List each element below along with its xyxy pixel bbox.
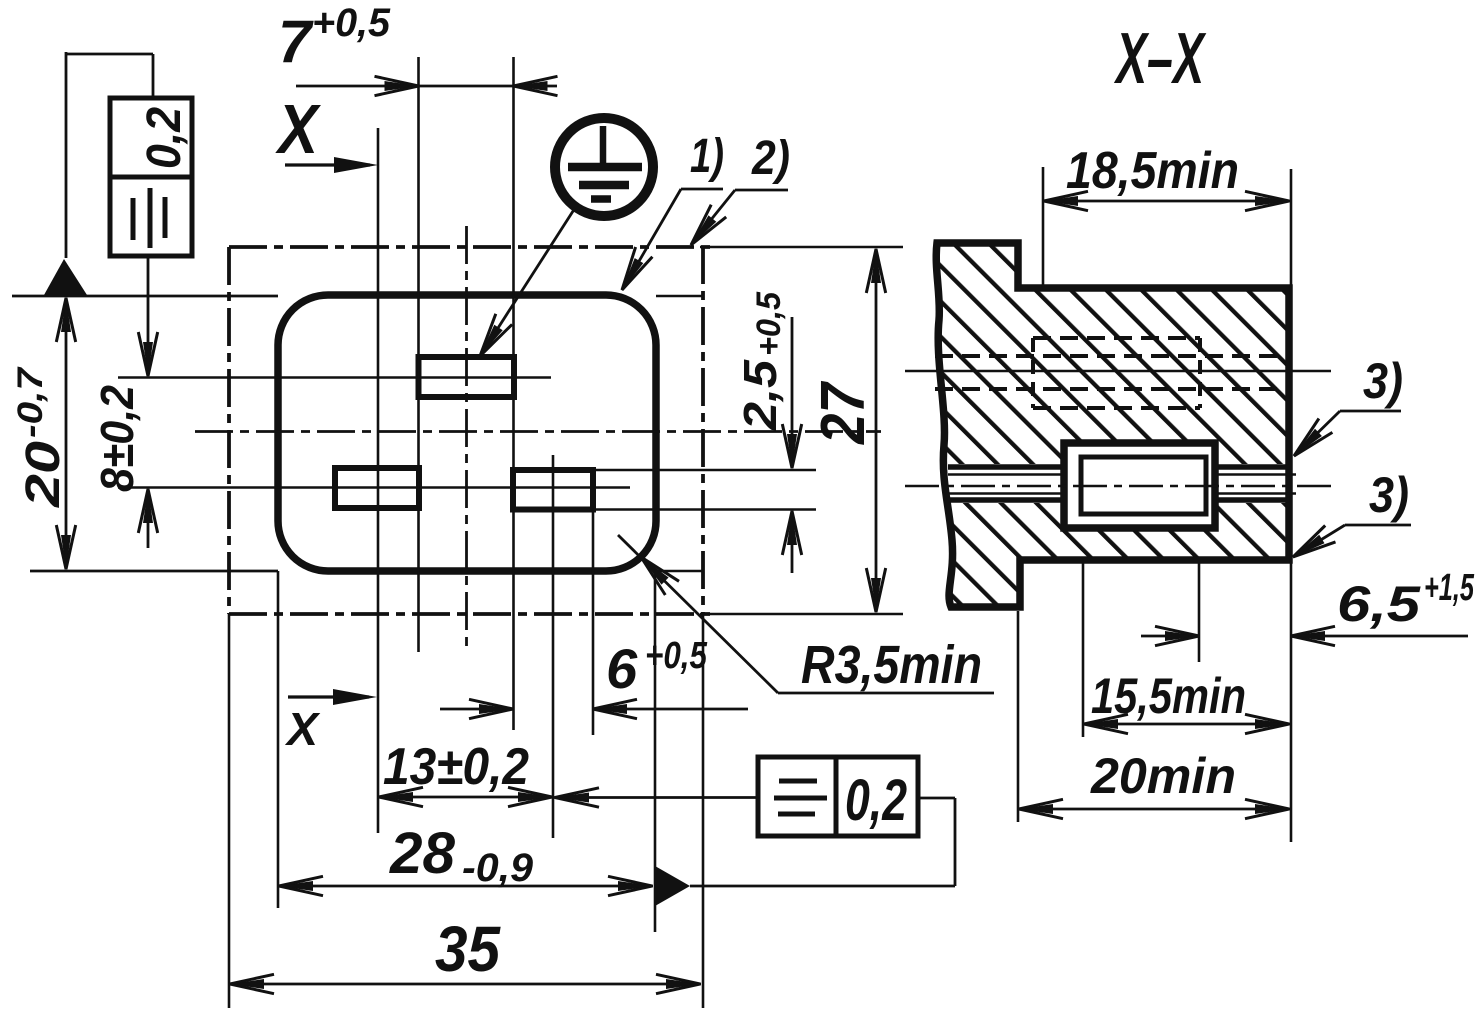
svg-text:X: X — [275, 90, 322, 168]
dimension 7 +0,5 — [296, 85, 557, 88]
earth pin channel (hidden, dashed) — [1033, 336, 1200, 340]
flatness symbol (rotated) — [131, 198, 136, 240]
connector face rounded rectangle — [278, 295, 656, 571]
svg-text:X–X: X–X — [1113, 19, 1206, 99]
leader to lower tolerance frame — [553, 796, 758, 799]
svg-text:2): 2) — [751, 132, 790, 185]
lower tolerance frame (flatness 0,2) — [758, 757, 918, 836]
dimension 35 — [229, 983, 701, 986]
svg-text:2,5: 2,5 — [734, 358, 786, 431]
svg-text:3): 3) — [1369, 467, 1409, 523]
leader loop from lower frame to datum — [690, 885, 955, 888]
panel cutout outline (phantom dash-dot rectangle) — [229, 245, 712, 249]
svg-text:3): 3) — [1363, 353, 1403, 409]
svg-text:6,5: 6,5 — [1337, 576, 1421, 632]
leader R3,5min to corner radius — [778, 692, 994, 695]
section mark X (top) — [285, 163, 370, 166]
svg-text:35: 35 — [435, 913, 501, 985]
horizontal centerline — [195, 430, 881, 433]
svg-text:X: X — [284, 703, 320, 755]
dimension 27 — [875, 249, 878, 612]
extension verticals — [228, 614, 231, 1008]
svg-text:+0,5: +0,5 — [312, 1, 391, 45]
dimension 6 +0,5 — [440, 708, 513, 711]
leader from frame to datum arrow — [65, 52, 68, 258]
dimension 28 -0,9 — [278, 885, 653, 888]
svg-text:-0,7: -0,7 — [11, 366, 50, 438]
svg-text:28: 28 — [389, 821, 456, 886]
svg-text:1): 1) — [690, 130, 724, 183]
svg-text:0,2: 0,2 — [138, 107, 191, 169]
contact chamber inner box — [1081, 457, 1206, 514]
dimension 6,5 +1,5 — [1141, 635, 1199, 638]
svg-text:8±0,2: 8±0,2 — [91, 385, 143, 492]
leader 2) to panel line — [735, 189, 788, 192]
svg-text:R3,5min: R3,5min — [801, 635, 982, 695]
extension lines right view — [1042, 167, 1045, 288]
contact chamber outer box — [1064, 443, 1215, 528]
datum triangle (top face) — [44, 259, 87, 295]
section body (hatched) — [936, 243, 1289, 607]
svg-text:27: 27 — [809, 381, 878, 445]
svg-text:18,5min: 18,5min — [1066, 142, 1239, 200]
extension of panel lines to 27-dim — [700, 246, 903, 249]
tolerance frame (flatness 0,2) top-left — [110, 98, 192, 256]
svg-text:6: 6 — [606, 637, 638, 700]
svg-text:13±0,2: 13±0,2 — [383, 738, 529, 796]
earth pin slot — [419, 357, 515, 397]
dimension 8 ±0,2 — [147, 256, 150, 375]
svg-text:+0,5: +0,5 — [645, 635, 708, 677]
leader 1) to face edge — [681, 188, 723, 191]
leader 3) lower — [1345, 524, 1411, 527]
dimension 2,5 +0,5 — [791, 317, 794, 467]
svg-text:7: 7 — [278, 8, 314, 75]
2,5-dim reference lines (right slot edges extended) — [596, 469, 816, 472]
earthing symbol — [555, 118, 653, 216]
dimension 20 min — [1018, 808, 1290, 811]
svg-text:-0,9: -0,9 — [462, 846, 534, 890]
leader from earthing symbol to earth slot — [482, 208, 575, 353]
earth pin axis — [905, 370, 1331, 373]
pin axis (dash-dot) — [905, 485, 1332, 488]
section mark X (bottom) — [288, 695, 369, 698]
earth pin slot mid reference line (8-dim) — [118, 376, 551, 379]
dimension 13 ±0,2 — [378, 796, 553, 799]
dimension 20 -0,7 — [65, 298, 68, 569]
datum triangle (side face) — [655, 866, 690, 906]
dimension 15,5 min — [1083, 723, 1290, 726]
leader 3) upper — [1340, 410, 1401, 413]
svg-text:20min: 20min — [1090, 748, 1236, 804]
left pin slot — [335, 468, 419, 508]
svg-text:15,5min: 15,5min — [1091, 668, 1246, 724]
lower pin channel walls — [948, 464, 1064, 470]
right pin slot — [513, 470, 593, 510]
svg-text:20: 20 — [17, 441, 70, 509]
pin channel voids — [947, 464, 1067, 503]
svg-text:+0,5: +0,5 — [750, 291, 788, 356]
dimension 18,5 min — [1043, 200, 1290, 203]
vertical centerline — [465, 226, 468, 652]
face top edge extension left (datum / 20-dim) — [12, 295, 278, 298]
svg-text:+1,5: +1,5 — [1424, 567, 1475, 609]
face bottom edge extension left — [30, 570, 278, 573]
section body outline — [936, 243, 1289, 607]
svg-text:0,2: 0,2 — [845, 768, 907, 833]
lower pins centerline (8-dim lower ref) — [118, 486, 630, 489]
